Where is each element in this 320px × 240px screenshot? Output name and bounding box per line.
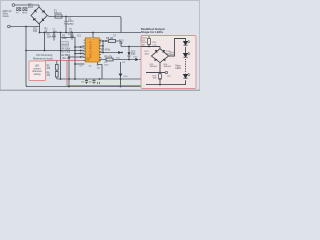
varistor box xyxy=(23,8,27,11)
svg-text:9: 9 xyxy=(82,49,83,51)
wire resistor bottom xyxy=(56,77,58,79)
wire test point xyxy=(146,72,165,74)
wire pin y57 xyxy=(69,56,85,58)
wire pin y47 xyxy=(75,46,85,48)
svg-text:36R: 36R xyxy=(170,54,174,56)
wire x69 down xyxy=(68,57,70,87)
wire into bridge top xyxy=(38,5,40,7)
wire vertical x103 xyxy=(102,41,104,53)
svg-text:11: 11 xyxy=(82,52,84,54)
C4 plates xyxy=(70,35,73,37)
wire AC live top xyxy=(15,4,39,6)
frame around label xyxy=(60,42,68,46)
svg-text:10M: 10M xyxy=(62,37,67,40)
svg-text:R8 1M: R8 1M xyxy=(106,37,113,40)
resistor R9 body xyxy=(106,58,113,61)
left pink box xyxy=(29,61,46,81)
svg-text:15V: 15V xyxy=(33,30,38,33)
svg-text:setting: setting xyxy=(34,73,41,76)
svg-text:275V: 275V xyxy=(68,23,74,26)
LED string wire xyxy=(185,47,187,60)
terminal AC live xyxy=(12,4,15,7)
svg-text:R2 680k: R2 680k xyxy=(62,55,71,57)
svg-text:10: 10 xyxy=(82,46,84,48)
rail box bottom xyxy=(146,80,186,84)
svg-text:MC14060: MC14060 xyxy=(89,41,93,58)
svg-text:R4 330k: R4 330k xyxy=(62,49,71,51)
wire x120 down xyxy=(120,62,122,87)
svg-text:500mA: 500mA xyxy=(54,12,62,15)
svg-text:current: current xyxy=(33,67,41,70)
svg-text:LEDs: LEDs xyxy=(176,68,182,70)
svg-text:Reference Input: Reference Input xyxy=(33,56,53,60)
resistor R13 xyxy=(159,74,162,79)
wire DC minus x26 xyxy=(26,27,28,87)
resistor R6 body xyxy=(55,72,58,78)
outer frame xyxy=(1,1,200,91)
zener ZD2 xyxy=(127,47,130,60)
svg-text:MOV: MOV xyxy=(22,12,27,14)
test point circle xyxy=(165,71,167,73)
LED2 xyxy=(183,52,190,57)
svg-text:R7 470k: R7 470k xyxy=(101,49,111,52)
C3 plates xyxy=(52,35,55,37)
capacitor C4 x72 xyxy=(71,33,73,40)
rail ground y79 xyxy=(57,78,161,80)
wire bottom vertex down xyxy=(159,63,161,74)
wire pin stub y45.9 xyxy=(99,45,103,47)
wire to corner xyxy=(116,41,122,47)
rail 0V bottom xyxy=(26,86,146,88)
svg-text:LED: LED xyxy=(35,66,40,68)
capacitor C6 xyxy=(93,79,96,84)
diode D12 arrow xyxy=(118,51,139,77)
svg-text:Stage for LEDs: Stage for LEDs xyxy=(141,30,163,34)
svg-text:IC1: IC1 xyxy=(77,35,82,38)
wire hang x44 xyxy=(44,33,46,51)
svg-text:4060B: 4060B xyxy=(61,44,68,46)
capacitor C3 x54 xyxy=(53,33,55,41)
junction dots xyxy=(25,16,161,88)
wire bridge bottom to rail xyxy=(39,23,41,32)
junction dots box xyxy=(148,46,161,86)
text labels xyxy=(3,4,182,84)
bridge rectifier BR1 xyxy=(31,7,47,24)
resistor R5 body xyxy=(55,65,58,71)
svg-text:1N4004: 1N4004 xyxy=(150,66,158,68)
svg-text:R9 47k: R9 47k xyxy=(105,56,113,59)
wire cap branch x66 xyxy=(65,17,67,33)
thermistor body xyxy=(145,55,150,58)
svg-text:15R: 15R xyxy=(153,78,157,80)
terminal AC neutral xyxy=(8,25,11,28)
wire AC neutral bottom xyxy=(11,26,40,28)
right box interior xyxy=(141,36,186,84)
red modified wire horizontal xyxy=(45,61,146,86)
wire IC out y41 xyxy=(100,40,109,42)
wire to left vertex xyxy=(151,55,152,57)
wire IC pin8 down xyxy=(98,62,103,79)
wire right vertex up xyxy=(169,39,186,57)
resistor chain top stub xyxy=(56,61,58,65)
dashed continuation xyxy=(185,61,187,74)
C2 plates x66 xyxy=(64,22,67,24)
wire IC supply x93 xyxy=(92,33,94,39)
wire divider x60 xyxy=(60,33,62,80)
wire tee y37 xyxy=(61,38,76,80)
LED1 xyxy=(183,40,190,45)
wire into diamond left xyxy=(144,56,146,60)
svg-text:100u: 100u xyxy=(47,36,53,39)
background xyxy=(0,0,200,91)
wire ground mid y50 xyxy=(26,50,85,52)
IC pin stubs left xyxy=(84,40,101,60)
wire to diamond top xyxy=(159,47,161,49)
crystal ticks xyxy=(98,82,100,84)
rail V plus y32 xyxy=(40,32,142,34)
diamond diodes xyxy=(154,50,166,61)
svg-text:mains: mains xyxy=(3,16,10,18)
wire IC out y52 xyxy=(100,52,123,54)
svg-text:R3 750k: R3 750k xyxy=(62,52,71,54)
svg-text:100n: 100n xyxy=(53,31,59,33)
wire between resistors xyxy=(56,70,58,72)
right pink box xyxy=(141,36,196,89)
svg-text:1N4004: 1N4004 xyxy=(164,66,172,68)
wire pin y53 xyxy=(75,53,85,55)
wire DC plus top xyxy=(47,16,121,33)
wire top rail in box xyxy=(141,46,160,48)
svg-text:4004: 4004 xyxy=(145,53,149,55)
capacitor C5 xyxy=(85,79,88,84)
switch S1 box xyxy=(17,8,21,11)
capacitor plates xyxy=(52,22,73,37)
svg-text:3: 3 xyxy=(101,39,102,41)
IC1 MC14060 xyxy=(84,38,101,62)
resistor R8 body xyxy=(109,40,116,43)
svg-text:reference: reference xyxy=(32,70,42,73)
LED3 xyxy=(183,73,190,78)
svg-text:4: 4 xyxy=(101,58,102,60)
bottom frame line xyxy=(0,89,200,91)
fuse F1 on top wire xyxy=(55,15,62,18)
diode diamond xyxy=(151,49,168,63)
svg-text:W04: W04 xyxy=(28,6,34,9)
svg-text:12: 12 xyxy=(82,56,84,58)
resistor R11 xyxy=(148,39,151,45)
wire into box y46 xyxy=(121,46,160,48)
svg-text:1W: 1W xyxy=(142,45,145,47)
wire pin y64 xyxy=(75,63,85,65)
svg-text:Rst 10k: Rst 10k xyxy=(63,57,72,60)
wire IC out y59 xyxy=(100,59,144,61)
